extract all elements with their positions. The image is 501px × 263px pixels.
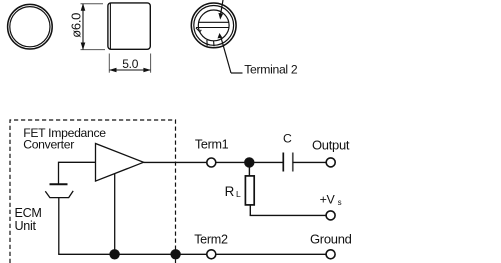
svg-text:s: s	[338, 198, 342, 207]
svg-text:L: L	[236, 189, 241, 199]
svg-text:Terminal 2: Terminal 2	[244, 62, 298, 76]
svg-text:+V: +V	[320, 193, 336, 207]
svg-text:R: R	[225, 184, 235, 199]
svg-text:Term2: Term2	[194, 232, 228, 246]
svg-text:Ground: Ground	[310, 232, 352, 247]
svg-text:Converter: Converter	[23, 138, 74, 152]
svg-text:ø6.0: ø6.0	[69, 13, 84, 38]
svg-text:Term1: Term1	[195, 138, 229, 152]
svg-text:C: C	[283, 132, 292, 146]
svg-text:Unit: Unit	[15, 219, 37, 233]
svg-text:5.0: 5.0	[122, 57, 138, 71]
svg-text:Output: Output	[312, 137, 350, 152]
